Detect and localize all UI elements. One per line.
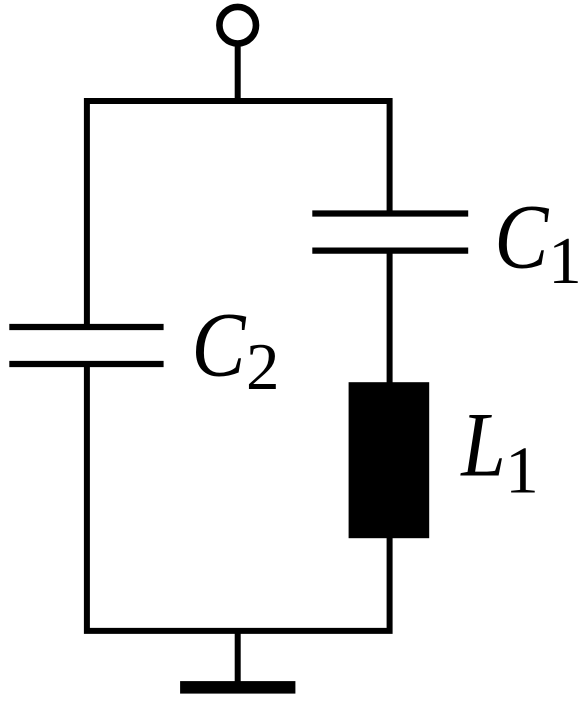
label C2 bbox=[192, 294, 247, 396]
svg-text:C: C bbox=[494, 186, 549, 288]
svg-text:L: L bbox=[459, 393, 505, 495]
ground bbox=[180, 681, 295, 694]
svg-text:C: C bbox=[192, 294, 247, 396]
capacitor C1 top plate bbox=[312, 210, 468, 216]
capacitor C1 bottom plate bbox=[312, 248, 468, 254]
wire top rail with left and right drops bbox=[87, 101, 390, 324]
capacitor C2 top plate bbox=[9, 324, 163, 330]
svg-text:1: 1 bbox=[548, 224, 582, 298]
label C1 bbox=[494, 186, 549, 288]
terminal T1 (input port circle) bbox=[219, 7, 256, 44]
label L1 bbox=[459, 393, 505, 495]
svg-text:1: 1 bbox=[505, 434, 539, 508]
capacitor C2 bottom plate bbox=[9, 361, 163, 367]
wire C1 to L1 bbox=[387, 251, 393, 384]
svg-text:2: 2 bbox=[246, 330, 280, 404]
inductor L1 (filled block) bbox=[349, 382, 430, 538]
wire bottom node to ground bbox=[235, 631, 241, 682]
wire bottom rail with left and right risers bbox=[87, 367, 390, 631]
wire from terminal to top node bbox=[235, 43, 241, 104]
